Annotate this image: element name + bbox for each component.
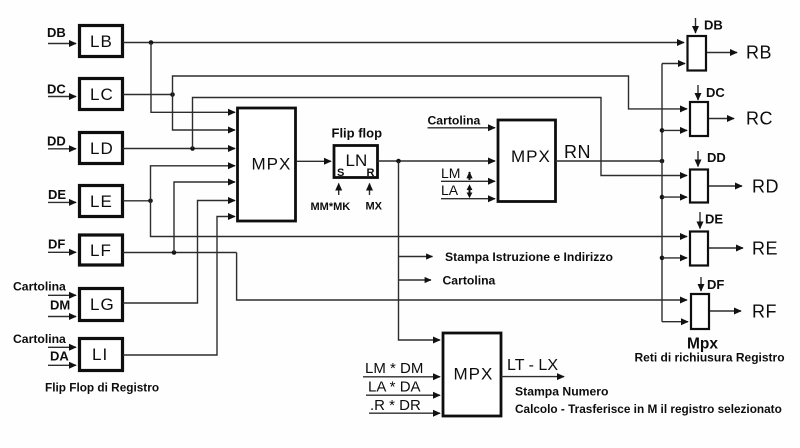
multiplexer MPX U3 (bottom) bbox=[443, 333, 501, 416]
bus vertical RN distribution bbox=[661, 64, 663, 322]
svg-text:MPX: MPX bbox=[511, 147, 551, 166]
branch arrow Stampa Istruzione bbox=[399, 256, 433, 258]
flip-flop register LC bbox=[80, 79, 123, 110]
input arrow DC bbox=[48, 96, 76, 98]
junction LE bbox=[148, 199, 153, 204]
junction LF bbox=[172, 250, 177, 255]
svg-text:LM: LM bbox=[441, 165, 460, 181]
wire bus to RB input2 bbox=[662, 63, 685, 65]
arrow into RF input1 bbox=[681, 299, 687, 301]
svg-text:RF: RF bbox=[752, 302, 777, 322]
wire LC output bbox=[123, 94, 173, 96]
arrow into MPX U3 top input bbox=[437, 339, 440, 341]
svg-text:LM * DM: LM * DM bbox=[365, 360, 423, 377]
strobe arrow DE bbox=[699, 212, 701, 229]
wire LG output up to MPX in6 bbox=[123, 201, 229, 304]
output arrow RF bbox=[710, 310, 741, 312]
output arrow RE bbox=[709, 247, 743, 249]
set input arrow S bbox=[338, 184, 340, 196]
closure network RD bbox=[690, 170, 708, 203]
svg-text:Flip Flop di Registro: Flip Flop di Registro bbox=[45, 381, 159, 395]
wire RN output to bus bbox=[556, 160, 663, 162]
svg-text:S: S bbox=[337, 167, 344, 179]
svg-text:DF: DF bbox=[707, 277, 724, 292]
wire LD output to MPX in3 bbox=[123, 148, 235, 150]
svg-text:LD: LD bbox=[90, 139, 114, 158]
svg-text:DA: DA bbox=[50, 349, 69, 364]
wire LE up to MPX in4 bbox=[151, 166, 230, 201]
svg-text:LA * DA: LA * DA bbox=[368, 379, 421, 396]
wire LF output bbox=[123, 252, 237, 254]
input arrow DD bbox=[48, 148, 76, 150]
svg-text:LB: LB bbox=[90, 32, 113, 51]
svg-text:DC: DC bbox=[47, 82, 66, 97]
junction LC bbox=[170, 92, 175, 97]
svg-text:RD: RD bbox=[752, 177, 779, 197]
closure network RC bbox=[690, 102, 708, 136]
wire LA*DA into U3 bbox=[366, 394, 440, 396]
svg-text:LE: LE bbox=[90, 192, 113, 211]
input arrow Cartolina (LI) bbox=[48, 346, 76, 348]
wire LA into U2 bbox=[441, 198, 495, 200]
wire LF up to MPX in5 bbox=[174, 182, 229, 253]
svg-text:Reti di richiusura Registro: Reti di richiusura Registro bbox=[635, 351, 785, 365]
svg-text:DD: DD bbox=[707, 150, 726, 165]
flip-flop register LE bbox=[80, 186, 123, 217]
flip-flop register LF bbox=[80, 235, 123, 265]
svg-text:RE: RE bbox=[752, 239, 778, 259]
svg-text:MM*MK: MM*MK bbox=[311, 201, 351, 213]
svg-text:LG: LG bbox=[90, 295, 115, 314]
svg-text:MPX: MPX bbox=[454, 365, 494, 384]
svg-text:LI: LI bbox=[92, 345, 108, 364]
strobe arrow DC bbox=[697, 85, 699, 100]
flip-flop register LG bbox=[80, 289, 123, 321]
svg-text:DD: DD bbox=[47, 134, 66, 149]
arrow into RC input1 bbox=[681, 108, 687, 110]
wire MPX out to LN bbox=[297, 160, 332, 162]
input arrow Cartolina (LG) bbox=[48, 294, 76, 296]
svg-text:DF: DF bbox=[48, 237, 65, 252]
svg-text:LA: LA bbox=[441, 182, 459, 198]
svg-text:DE: DE bbox=[48, 187, 66, 202]
svg-text:LF: LF bbox=[90, 241, 112, 260]
svg-text:LT - LX: LT - LX bbox=[507, 357, 558, 374]
junction LD bbox=[190, 146, 195, 151]
junction RN bus bbox=[660, 159, 665, 164]
svg-text:Stampa Numero: Stampa Numero bbox=[515, 385, 608, 399]
svg-text:LN: LN bbox=[346, 151, 368, 170]
wire LC down to MPX in2 bbox=[173, 95, 230, 131]
svg-text:Cartolina: Cartolina bbox=[428, 114, 481, 128]
svg-text:DM: DM bbox=[50, 298, 70, 313]
arrow into MPX in4 bbox=[231, 165, 235, 167]
svg-text:Cartolina: Cartolina bbox=[13, 332, 66, 346]
wire LI output up to MPX in7 bbox=[123, 217, 229, 356]
wire Cartolina into U2 bbox=[428, 127, 496, 129]
svg-text:.R * DR: .R * DR bbox=[370, 397, 421, 414]
svg-text:Cartolina: Cartolina bbox=[443, 273, 496, 287]
input arrow DF bbox=[48, 251, 76, 253]
wire LE down to RE (net y236.5) bbox=[151, 201, 682, 237]
wire LM*DM into U3 bbox=[363, 376, 440, 378]
svg-text:DB: DB bbox=[47, 25, 66, 40]
svg-text:DC: DC bbox=[706, 85, 725, 100]
svg-text:MX: MX bbox=[366, 201, 383, 213]
closure network RE bbox=[690, 232, 708, 266]
junction bus RC bbox=[660, 128, 665, 133]
svg-text:Flip flop: Flip flop bbox=[332, 126, 383, 141]
wire bus to RF input2 bbox=[662, 321, 688, 323]
svg-text:DB: DB bbox=[704, 18, 723, 33]
svg-text:Stampa Istruzione e Indirizzo: Stampa Istruzione e Indirizzo bbox=[445, 250, 613, 264]
wire LN output to MPX U2 bbox=[378, 160, 496, 162]
multiplexer MPX U2 (right) bbox=[498, 120, 556, 202]
svg-text:RC: RC bbox=[746, 109, 773, 129]
svg-text:DE: DE bbox=[705, 212, 723, 227]
flip-flop register LB bbox=[80, 26, 123, 57]
junction bus RE bbox=[660, 256, 665, 261]
arrow into MPX in1 bbox=[231, 111, 235, 113]
wire .R*DR into U3 bbox=[369, 412, 440, 414]
strobe arrow DF bbox=[700, 277, 702, 291]
svg-text:MPX: MPX bbox=[252, 155, 292, 174]
closure network RB bbox=[688, 36, 707, 71]
reset input arrow R bbox=[369, 184, 371, 196]
wire LB output to RB input1 (net y42.5) bbox=[123, 42, 684, 44]
input arrow DM bbox=[48, 316, 76, 318]
wire LC up to RC (net y76) bbox=[173, 76, 682, 109]
strobe arrow DD bbox=[697, 151, 699, 167]
input arrow DE bbox=[48, 201, 76, 203]
junction bus RD bbox=[660, 195, 665, 200]
output arrow RC bbox=[709, 118, 734, 120]
wire LN branch down to MPX U3 bbox=[399, 161, 437, 340]
wire bus to RC input2 bbox=[662, 129, 687, 131]
arrow into MPX in7 bbox=[231, 216, 235, 218]
branch arrow Cartolina bbox=[399, 279, 432, 281]
closure network RF bbox=[691, 294, 709, 329]
output arrow RB bbox=[707, 52, 737, 54]
arrow into MPX in5 bbox=[231, 181, 235, 183]
junction LB branch bbox=[149, 40, 154, 45]
arrow into RD input1 bbox=[681, 175, 687, 177]
arrow into MPX in2 bbox=[231, 129, 235, 131]
arrow into RE input1 bbox=[681, 236, 687, 238]
wire LE output bbox=[123, 200, 151, 202]
svg-text:RN: RN bbox=[564, 142, 591, 162]
flip-flop LN bbox=[334, 146, 378, 180]
svg-text:Cartolina: Cartolina bbox=[13, 280, 66, 294]
strobe arrow DB bbox=[695, 18, 697, 33]
svg-text:RB: RB bbox=[746, 43, 772, 63]
arrow into MPX in6 bbox=[231, 200, 235, 202]
input arrow DA bbox=[48, 364, 76, 366]
multiplexer MPX U1 (central) bbox=[238, 108, 296, 221]
svg-text:R: R bbox=[367, 167, 375, 179]
flip-flop register LD bbox=[80, 133, 123, 164]
junction LN output bbox=[396, 159, 401, 164]
wire LM into U2 bbox=[441, 180, 495, 182]
output arrow LT-LX bbox=[501, 376, 564, 378]
wire LF down to RF (net y300) bbox=[237, 253, 681, 301]
svg-text:LC: LC bbox=[90, 85, 114, 104]
wire LB branch vertical bbox=[151, 43, 229, 113]
flip-flop register LI bbox=[80, 339, 123, 371]
input arrow DB bbox=[48, 43, 76, 45]
output arrow RD bbox=[709, 185, 742, 187]
wire bus to RD input2 bbox=[662, 196, 687, 198]
wire LD up to RD (net y97.5) bbox=[193, 98, 682, 176]
svg-text:Calcolo - Trasferisce in M il: Calcolo - Trasferisce in M il registro s… bbox=[515, 402, 782, 416]
wire bus to RE input2 bbox=[662, 257, 687, 259]
